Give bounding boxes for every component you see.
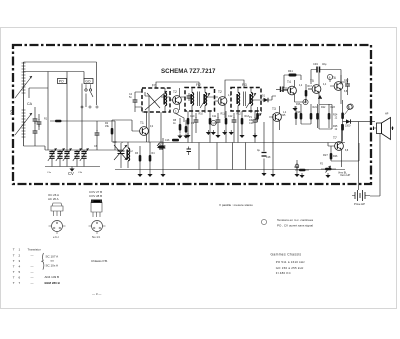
ground T4 bbox=[292, 106, 297, 111]
svg-text:P2: P2 bbox=[320, 163, 324, 166]
svg-text:Tensions en m.c. continues: Tensions en m.c. continues bbox=[277, 218, 314, 222]
ground gang bbox=[69, 167, 74, 172]
ground under C12 bbox=[222, 130, 227, 135]
ground C13 bbox=[252, 133, 257, 138]
note tension legend circle bbox=[261, 219, 266, 224]
svg-text:T3: T3 bbox=[272, 107, 276, 111]
svg-text:—: — bbox=[31, 270, 34, 274]
electrolytic C17 bbox=[276, 87, 288, 93]
resistor R18b bbox=[295, 106, 298, 125]
svg-text:C22: C22 bbox=[344, 79, 349, 82]
svg-text:No 1 b: No 1 b bbox=[92, 235, 101, 239]
resistor R13 bbox=[241, 111, 244, 133]
test point 5 bbox=[211, 120, 216, 125]
svg-text:12: 12 bbox=[335, 117, 338, 120]
variable capacitor CV4 bbox=[73, 148, 82, 166]
svg-text:—: — bbox=[31, 281, 34, 285]
resistor R4 bbox=[149, 142, 152, 172]
svg-text:R27: R27 bbox=[323, 153, 328, 157]
schematic dashed frame bbox=[13, 45, 371, 184]
ground R9 bbox=[183, 134, 188, 139]
resistor R9 bbox=[185, 120, 188, 133]
IF transformer FI2 bbox=[185, 83, 215, 111]
svg-text:R16: R16 bbox=[296, 103, 301, 106]
ground T1e bbox=[137, 172, 142, 177]
capacitor C10 bbox=[194, 113, 199, 133]
svg-text:R15: R15 bbox=[281, 114, 286, 117]
wire to FI1 bbox=[67, 92, 142, 150]
test point 8 bbox=[345, 104, 354, 115]
coil CA tuning arrow bbox=[15, 76, 32, 98]
test point 2 bbox=[327, 74, 332, 79]
ground C14 bbox=[261, 171, 266, 176]
svg-text:T4: T4 bbox=[287, 80, 291, 84]
transistor T4 bbox=[280, 80, 296, 102]
resistor R8 bbox=[179, 118, 182, 133]
tuning gang CV bus bbox=[45, 150, 115, 167]
antenna ferrite rod L1 bbox=[22, 62, 26, 146]
svg-text:8,8: 8,8 bbox=[345, 150, 349, 152]
svg-text:CV: CV bbox=[68, 171, 74, 176]
ground R13 bbox=[239, 133, 244, 138]
svg-text:FI3: FI3 bbox=[242, 83, 247, 87]
variable capacitor CV3 bbox=[63, 148, 72, 166]
FI2 secondary bbox=[198, 88, 207, 112]
switch contact box GO bbox=[84, 79, 93, 84]
variable capacitor CV1 bbox=[48, 148, 57, 166]
resistor R1 bbox=[50, 120, 67, 123]
variable capacitor CV2 bbox=[56, 148, 65, 166]
svg-text:Châssis P.B.: Châssis P.B. bbox=[91, 259, 108, 263]
capacitor C2 bbox=[33, 128, 38, 142]
thermistor R28 bbox=[294, 166, 309, 171]
svg-text:R10: R10 bbox=[199, 113, 204, 116]
svg-text:12: 12 bbox=[335, 128, 338, 131]
ground AGC bbox=[270, 172, 275, 177]
svg-text:GO 150 à 255 kHz: GO 150 à 255 kHz bbox=[276, 266, 304, 270]
svg-text:4: 4 bbox=[19, 265, 21, 269]
svg-text:T: T bbox=[13, 276, 15, 280]
FI2 capacitor bbox=[187, 93, 192, 101]
svg-text:5: 5 bbox=[19, 270, 21, 274]
transistor T2 bbox=[215, 90, 227, 118]
label R8 value bbox=[173, 119, 177, 125]
svg-text:C12: C12 bbox=[228, 115, 233, 118]
svg-text:T: T bbox=[13, 248, 15, 252]
svg-text:—: — bbox=[31, 265, 34, 269]
svg-text:COV 28 B: COV 28 B bbox=[89, 194, 102, 198]
svg-text:R11: R11 bbox=[221, 113, 226, 116]
wire osc lattice bbox=[112, 112, 163, 150]
label C4 value bbox=[129, 93, 133, 99]
capacitor C14 AGC bbox=[257, 148, 267, 156]
ground R28 bbox=[299, 173, 304, 178]
svg-text:AD4 149 B: AD4 149 B bbox=[45, 275, 60, 279]
test point 3 bbox=[347, 104, 352, 109]
svg-text:—: — bbox=[31, 276, 34, 280]
FI3 core arrow bbox=[246, 93, 256, 108]
ground C5 bbox=[160, 172, 165, 177]
resistor R22 bbox=[316, 104, 319, 124]
ground R10 bbox=[185, 133, 190, 138]
svg-text:1k: 1k bbox=[173, 122, 176, 125]
svg-text:e b c: e b c bbox=[53, 235, 60, 239]
svg-text:CO: CO bbox=[113, 141, 117, 144]
coil SO tuning arrow bbox=[15, 113, 32, 135]
resistor R23 bbox=[328, 104, 331, 124]
test point 1 bbox=[303, 99, 308, 104]
jack socket prise HP bbox=[352, 190, 370, 206]
capacitor C11 bbox=[216, 113, 221, 133]
ground under R12b bbox=[229, 130, 234, 135]
potentiometer P2 bbox=[321, 166, 336, 173]
svg-text:R18: R18 bbox=[296, 111, 301, 114]
capacitor C15 bbox=[157, 143, 165, 150]
svg-text:7: 7 bbox=[19, 281, 21, 285]
ground S2 bbox=[294, 172, 299, 177]
wire bias loop bbox=[319, 105, 332, 130]
test point T2e bbox=[173, 108, 178, 113]
svg-text:—: — bbox=[31, 254, 34, 258]
parts table bbox=[13, 248, 61, 286]
svg-text:4,4: 4,4 bbox=[323, 84, 327, 86]
svg-text:2: 2 bbox=[175, 109, 177, 113]
svg-text:R12: R12 bbox=[237, 113, 242, 116]
case bottom view AC126 bbox=[49, 221, 66, 240]
svg-text:PO: PO bbox=[59, 80, 64, 84]
FI2 primary bbox=[190, 88, 193, 112]
switch contact box PO bbox=[58, 79, 67, 84]
svg-text:R41: R41 bbox=[288, 69, 293, 73]
diode D1 bbox=[261, 98, 272, 102]
svg-text:C15: C15 bbox=[158, 143, 163, 146]
svg-text:T5: T5 bbox=[310, 79, 314, 83]
FI1 coil secondary bbox=[163, 88, 166, 112]
IF transformer FI1 bbox=[142, 84, 170, 113]
FI3 secondary bbox=[244, 88, 253, 112]
wire T7 loop bbox=[328, 143, 359, 168]
svg-text:4µ: 4µ bbox=[257, 148, 260, 152]
wire IF chain bbox=[149, 80, 276, 143]
svg-text:ou: ou bbox=[51, 259, 55, 263]
capacitor C1 bbox=[33, 110, 38, 128]
capacitor C30 bbox=[187, 147, 192, 156]
resistor R20 bbox=[300, 104, 303, 124]
svg-text:D1: D1 bbox=[262, 95, 266, 98]
transistor T3 bbox=[269, 106, 281, 130]
variable capacitor CV5 bbox=[80, 148, 89, 166]
svg-text:C13: C13 bbox=[249, 122, 254, 125]
svg-text:R21: R21 bbox=[313, 106, 318, 109]
svg-text:T: T bbox=[13, 270, 15, 274]
svg-text:T7: T7 bbox=[333, 136, 337, 140]
svg-text:T: T bbox=[13, 259, 15, 263]
capacitor C3b bbox=[37, 114, 42, 130]
ground under C11 bbox=[206, 130, 211, 135]
svg-text:T1: T1 bbox=[140, 121, 144, 125]
svg-text:R4: R4 bbox=[152, 152, 156, 155]
resistor R19 bbox=[305, 84, 308, 103]
resistor R5 bbox=[158, 138, 168, 148]
switch contacts S1b bbox=[81, 106, 98, 108]
ground R11 bbox=[215, 133, 220, 138]
case outline AD149 bbox=[89, 190, 102, 217]
svg-text:PO , CV ouvert sans signal: PO , CV ouvert sans signal bbox=[277, 224, 313, 228]
FI2 core arrow bbox=[200, 93, 210, 108]
svg-text:T: T bbox=[13, 254, 15, 258]
ground P2 bbox=[325, 173, 330, 178]
capacitor C22 bbox=[345, 78, 350, 95]
transistor T7 bbox=[328, 124, 343, 161]
electrolytic C20 bbox=[311, 62, 327, 73]
IF transformer FI3 bbox=[231, 83, 261, 111]
svg-text:CTN: CTN bbox=[294, 166, 299, 169]
wire to speaker bbox=[343, 122, 375, 190]
svg-text:R22: R22 bbox=[321, 106, 326, 109]
capacitor C13 bbox=[253, 111, 258, 133]
svg-text:C11: C11 bbox=[212, 115, 217, 118]
wire long bus2 bbox=[115, 163, 345, 170]
svg-text:Prise HP: Prise HP bbox=[354, 202, 365, 206]
wire speaker return bbox=[370, 134, 380, 196]
svg-text:4,2: 4,2 bbox=[299, 85, 303, 87]
svg-text:6: 6 bbox=[329, 75, 331, 79]
svg-text:Transistor: Transistor bbox=[28, 248, 41, 252]
transistor T1 bbox=[132, 112, 148, 142]
coil SO winding bbox=[22, 110, 26, 137]
svg-text:R17: R17 bbox=[308, 85, 313, 88]
oscillator coil L2 bbox=[126, 142, 129, 168]
svg-text:1500: 1500 bbox=[345, 125, 351, 128]
svg-text:SO: SO bbox=[10, 110, 14, 115]
parts table brace bbox=[42, 253, 44, 270]
resistor R12 bbox=[225, 111, 228, 133]
svg-text:15k: 15k bbox=[105, 125, 110, 128]
svg-text:C16: C16 bbox=[165, 139, 170, 142]
svg-text:C10: C10 bbox=[190, 115, 195, 118]
svg-text:AC 26 A: AC 26 A bbox=[48, 197, 59, 201]
wire AGC line bbox=[157, 114, 345, 172]
interstage choke TR1 bbox=[284, 69, 301, 77]
resistor R11 bbox=[209, 111, 212, 133]
resistor R2 bbox=[111, 120, 114, 142]
svg-text:FI 480 KC: FI 480 KC bbox=[276, 271, 291, 275]
svg-text:40µ: 40µ bbox=[322, 62, 327, 66]
svg-text:R3: R3 bbox=[135, 152, 139, 155]
FI3 primary bbox=[236, 88, 239, 112]
label R2 value bbox=[105, 122, 110, 128]
case bottom view AD149 bbox=[89, 221, 106, 240]
svg-text:C1a: C1a bbox=[47, 172, 52, 174]
svg-text:SCHEMA 7Z7.7217: SCHEMA 7Z7.7217 bbox=[161, 68, 216, 75]
svg-text:C18: C18 bbox=[266, 156, 271, 159]
resistor R30 on line bbox=[172, 139, 179, 142]
resistor R10 bbox=[187, 111, 190, 133]
svg-text:L2: L2 bbox=[130, 150, 133, 153]
oscillator variable capacitor CO bbox=[114, 143, 127, 168]
resistor R25 bbox=[333, 124, 344, 142]
wire C20 box bbox=[284, 70, 341, 89]
svg-text:T: T bbox=[13, 265, 15, 269]
resistor R27 bbox=[323, 146, 332, 161]
svg-text:C49: C49 bbox=[313, 62, 318, 66]
diode D2 bbox=[318, 95, 322, 98]
svg-text:— 3 —: — 3 — bbox=[92, 292, 101, 296]
svg-text:5n: 5n bbox=[129, 96, 132, 99]
note tension legend text bbox=[277, 218, 314, 228]
svg-text:T2: T2 bbox=[173, 90, 177, 94]
svg-text:SC 10x A: SC 10x A bbox=[46, 264, 59, 268]
diode D3 bbox=[345, 119, 351, 127]
label P1 value bbox=[249, 116, 254, 122]
transistor T6 bbox=[330, 75, 343, 100]
wire audio lattice bbox=[295, 73, 348, 129]
svg-text:FI2: FI2 bbox=[196, 83, 201, 87]
wire antenna top bbox=[24, 62, 97, 105]
svg-text:HP: HP bbox=[385, 113, 389, 116]
svg-text:Gammes Chassis: Gammes Chassis bbox=[271, 253, 302, 257]
svg-text:2: 2 bbox=[19, 254, 21, 258]
resistor R3 bbox=[139, 146, 142, 172]
transistor T2a bbox=[170, 88, 181, 110]
svg-text:1: 1 bbox=[19, 248, 21, 252]
speaker HP bbox=[373, 118, 394, 140]
svg-text:EEM 280 B: EEM 280 B bbox=[45, 281, 61, 285]
svg-text:R26: R26 bbox=[333, 155, 338, 158]
switch S2 bbox=[295, 160, 299, 172]
ground R8 bbox=[177, 134, 182, 139]
svg-text:R23: R23 bbox=[331, 106, 336, 109]
capacitor C6b bbox=[95, 121, 100, 150]
svg-text:0,2: 0,2 bbox=[150, 126, 154, 128]
svg-text:3: 3 bbox=[19, 259, 21, 263]
ground R4 bbox=[147, 172, 152, 177]
resistor R24 bbox=[333, 104, 344, 124]
resistor R21 bbox=[310, 104, 313, 124]
wire T2 emitter bbox=[176, 114, 184, 122]
svg-text:CA: CA bbox=[27, 102, 33, 106]
svg-text:T: T bbox=[13, 281, 15, 285]
wire switch lattice bbox=[24, 72, 94, 151]
capacitor C4 bbox=[133, 92, 138, 112]
FI1 core arrow bbox=[145, 91, 167, 110]
svg-text:T2: T2 bbox=[218, 90, 222, 94]
svg-text:C1b: C1b bbox=[78, 172, 83, 174]
volume potentiometer P1 bbox=[255, 107, 262, 122]
svg-text:GO: GO bbox=[85, 80, 91, 84]
transistor T5 bbox=[308, 78, 321, 100]
svg-text:6: 6 bbox=[19, 276, 21, 280]
capacitor C12 bbox=[232, 113, 237, 133]
svg-text:V pastille : mesure stéréo: V pastille : mesure stéréo bbox=[219, 203, 253, 207]
case outline AC126 bbox=[48, 193, 63, 216]
svg-text:Vers HP: Vers HP bbox=[340, 173, 350, 177]
svg-text:PO 511 à 1610 kHz: PO 511 à 1610 kHz bbox=[276, 260, 306, 264]
svg-text:1,4: 1,4 bbox=[283, 112, 287, 114]
ground under R11b bbox=[211, 130, 216, 135]
FI1 tap bbox=[145, 92, 149, 112]
svg-text:R1: R1 bbox=[44, 118, 48, 121]
switch contacts S1 bbox=[85, 84, 92, 91]
capacitor C5 bbox=[161, 138, 166, 172]
